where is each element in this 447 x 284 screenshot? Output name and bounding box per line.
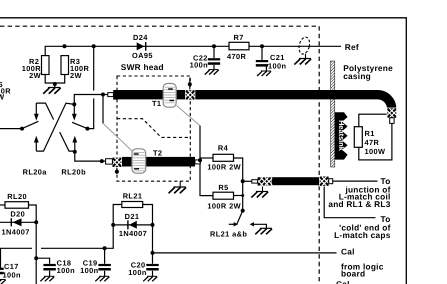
svg-text:T1: T1 — [152, 99, 161, 108]
svg-text:2W: 2W — [29, 71, 41, 80]
svg-text:R5: R5 — [218, 183, 228, 192]
svg-text:2W: 2W — [70, 71, 82, 80]
svg-text:D20: D20 — [10, 210, 25, 219]
svg-text:R1: R1 — [365, 129, 375, 138]
svg-text:casing: casing — [343, 71, 371, 81]
svg-text:100n: 100n — [268, 62, 287, 71]
svg-text:100R 2W: 100R 2W — [207, 163, 241, 172]
svg-text:100n: 100n — [128, 268, 147, 277]
svg-text:100W: 100W — [365, 147, 386, 156]
svg-text:RL21: RL21 — [123, 192, 143, 201]
svg-text:OA95: OA95 — [132, 51, 153, 60]
svg-text:100R 2W: 100R 2W — [207, 202, 241, 211]
svg-text:D21: D21 — [125, 212, 140, 221]
svg-text:Cal: Cal — [336, 279, 350, 284]
svg-text:100n: 100n — [80, 266, 99, 275]
svg-text:470R: 470R — [227, 52, 247, 61]
svg-text:W: W — [0, 93, 5, 102]
svg-text:SWR head: SWR head — [121, 62, 164, 72]
svg-text:100n: 100n — [57, 266, 76, 275]
svg-text:1N4007: 1N4007 — [2, 228, 30, 237]
svg-text:and RL1 & RL3: and RL1 & RL3 — [328, 199, 390, 209]
svg-text:L-match caps: L-match caps — [334, 230, 391, 240]
svg-text:RL20: RL20 — [7, 192, 27, 201]
svg-text:1N4007: 1N4007 — [119, 229, 147, 238]
svg-text:47R: 47R — [365, 138, 380, 147]
svg-text:R7: R7 — [234, 33, 244, 42]
svg-text:RL20b: RL20b — [61, 168, 86, 177]
svg-text:Cal: Cal — [341, 246, 355, 256]
svg-text:D24: D24 — [133, 33, 148, 42]
svg-text:RL21 a&b: RL21 a&b — [210, 230, 247, 239]
svg-text:100n: 100n — [190, 61, 209, 70]
svg-text:Heatsink: Heatsink — [337, 120, 346, 152]
svg-text:100n: 100n — [3, 271, 22, 280]
svg-text:T2: T2 — [153, 149, 162, 158]
svg-text:RL20a: RL20a — [23, 168, 48, 177]
svg-text:Ref: Ref — [345, 42, 359, 52]
svg-text:board: board — [341, 268, 365, 278]
svg-text:R4: R4 — [218, 144, 229, 153]
